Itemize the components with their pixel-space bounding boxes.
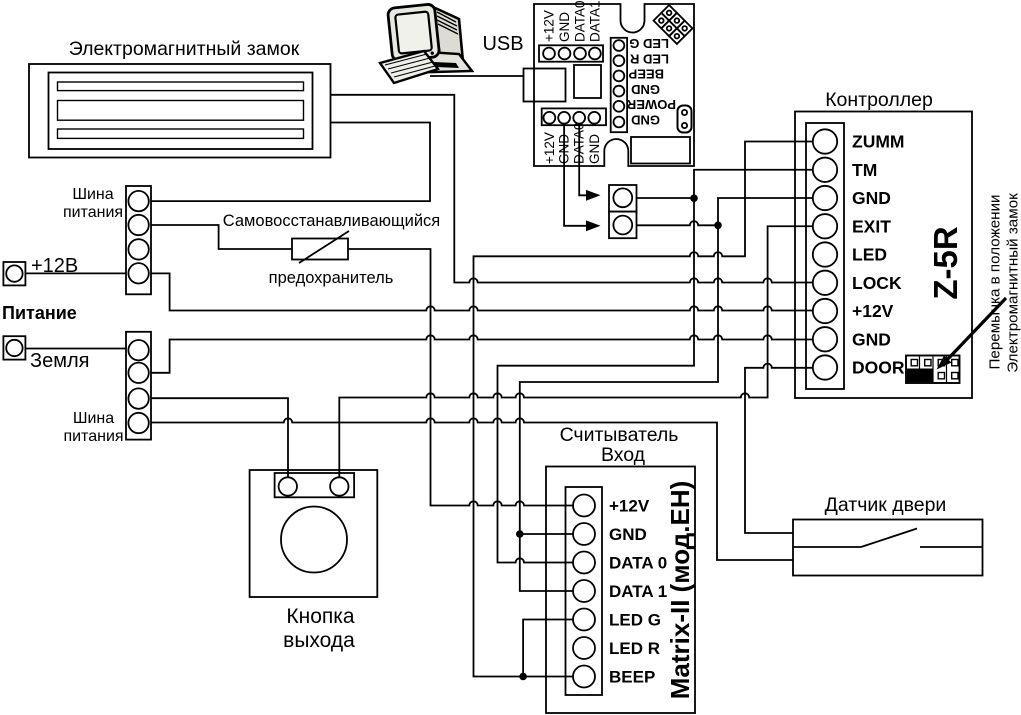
converter USB socket	[524, 69, 566, 102]
svg-text:LOCK: LOCK	[852, 273, 902, 293]
wire converter GND to TM connector (arrow)	[564, 124, 600, 232]
wire controller GND chain to reader DATA 1	[520, 198, 813, 591]
svg-text:GND: GND	[852, 329, 891, 349]
exit button	[250, 470, 378, 597]
controller Z-5R box	[795, 112, 972, 399]
converter chip	[574, 65, 601, 98]
label Кнопка выхода	[283, 605, 355, 652]
J3 pin LED G	[614, 40, 625, 51]
wire DOOR to door sensor	[745, 364, 813, 533]
svg-text:GND: GND	[557, 12, 572, 42]
pin DATA0 top	[574, 48, 586, 60]
svg-text:Вход: Вход	[601, 444, 646, 466]
pin +12V top	[543, 48, 555, 60]
controller terminal strip	[806, 123, 844, 389]
svg-text:Датчик двери: Датчик двери	[825, 494, 947, 516]
label Шина питания (top)	[63, 186, 123, 221]
labels J2 +12V GND DATA0 GND	[542, 122, 602, 164]
svg-text:BEEP: BEEP	[609, 668, 655, 687]
reader pin +12V	[573, 495, 595, 517]
converter board outline	[534, 4, 694, 166]
svg-text:Matrix-II (мод.EH): Matrix-II (мод.EH)	[665, 481, 695, 700]
converter top connector J1	[539, 45, 603, 61]
svg-text:+12V: +12V	[542, 10, 557, 42]
svg-text:TM: TM	[852, 160, 877, 180]
svg-text:Питание: Питание	[2, 303, 77, 323]
controller pin EXIT	[813, 214, 837, 238]
svg-text:LED G: LED G	[629, 36, 669, 51]
svg-text:предохранитель: предохранитель	[269, 269, 394, 287]
junction dot TM net	[690, 194, 698, 202]
labels J1 +12V GND DATA0 DATA1	[542, 0, 603, 42]
svg-text:DATA 0: DATA 0	[609, 554, 667, 573]
controller pin TM	[813, 158, 837, 182]
+12V power terminal	[3, 262, 25, 285]
controller pin +12V	[813, 299, 837, 323]
wire fuse to reader +12V	[348, 249, 574, 506]
converter jumper header 2x3	[654, 5, 693, 44]
svg-text:Считыватель: Считыватель	[560, 424, 679, 446]
svg-text:ZUMM: ZUMM	[852, 132, 904, 152]
J3 pin GND2	[614, 117, 625, 128]
jumper pointer arrow	[937, 298, 1007, 370]
controller pin GND	[813, 186, 837, 210]
reader pin DATA 1	[573, 580, 595, 602]
ground terminal Земля	[3, 336, 25, 359]
svg-text:GND: GND	[587, 134, 602, 164]
wire +12V bus to controller +12V	[151, 273, 813, 310]
labels J3 LED G LED R BEEP GND POWER GND (upside down)	[626, 36, 676, 128]
reader pin DATA 0	[573, 552, 595, 574]
controller pin DOOR	[813, 355, 837, 379]
svg-text:Электромагнитный замок: Электромагнитный замок	[69, 38, 300, 60]
wire lock minus to power strip pin1	[151, 123, 430, 202]
svg-text:GND: GND	[852, 188, 891, 208]
pin +12V bottom	[544, 112, 556, 124]
svg-text:питания: питания	[63, 428, 123, 445]
reader Matrix-II box	[546, 467, 695, 714]
svg-text:LED G: LED G	[609, 611, 661, 630]
power bus strip top	[126, 186, 151, 294]
wire ZUMM to reader BEEP	[474, 142, 813, 677]
pin GND bottom	[558, 112, 570, 124]
svg-text:GND: GND	[631, 113, 660, 128]
wire GND bus to controller GND	[151, 335, 813, 373]
reader pin labels	[609, 497, 667, 687]
svg-text:POWER: POWER	[626, 97, 676, 112]
J3 pin POWER	[614, 101, 625, 112]
svg-text:Самовосстанавливающийся: Самовосстанавливающийся	[223, 212, 440, 230]
wire strip pin3 to exit button	[151, 398, 288, 477]
svg-text:GND: GND	[609, 525, 647, 544]
computer PC icon	[380, 4, 472, 83]
svg-text:LED R: LED R	[609, 639, 660, 658]
pin GND2 bottom	[588, 112, 600, 124]
svg-text:USB: USB	[482, 33, 523, 55]
wire lock plus to LOCK pin	[330, 95, 813, 283]
svg-text:LED: LED	[852, 245, 887, 265]
controller pin labels	[852, 132, 905, 378]
controller DOOR jumper block	[906, 356, 960, 384]
pin DATA1 top	[589, 48, 601, 60]
wire TM connector top to TM net	[637, 197, 695, 199]
bottom strip pin 4	[128, 413, 148, 433]
svg-text:GND: GND	[631, 82, 660, 97]
converter bottom connector J2	[542, 108, 606, 125]
wire reader LED G drop	[523, 620, 573, 677]
J3 pin LED R	[614, 55, 625, 66]
pin GND top	[559, 48, 571, 60]
svg-text:DATA1: DATA1	[588, 0, 603, 42]
reader pin LED R	[573, 637, 595, 659]
reader terminal strip	[566, 487, 603, 695]
svg-text:+12V: +12V	[542, 132, 557, 164]
J3 pin GND	[614, 86, 625, 97]
junction dot reader BEEP	[519, 673, 527, 681]
reader pin GND	[573, 523, 595, 545]
svg-text:питания: питания	[63, 204, 123, 221]
svg-text:Шина: Шина	[73, 410, 114, 427]
fuse self-resetting	[292, 231, 349, 263]
controller pin GND	[813, 327, 837, 351]
wire TM to reader DATA 0	[498, 170, 813, 563]
top strip pin 1	[128, 191, 148, 211]
top strip pin 2	[128, 215, 148, 235]
svg-text:LED R: LED R	[629, 51, 669, 66]
label Перемычка в положении Электромагнитный замок	[987, 193, 1021, 373]
svg-text:DATA0: DATA0	[573, 0, 588, 42]
svg-text:Электромагнитный замок: Электромагнитный замок	[1005, 193, 1021, 373]
top strip pin 3	[128, 239, 148, 259]
wire computer USB cable	[430, 75, 524, 77]
controller pin ZUMM	[813, 129, 837, 153]
converter reader connector J3	[611, 38, 627, 132]
svg-text:DOOR: DOOR	[852, 358, 905, 378]
TM connector block	[609, 185, 637, 238]
door sensor	[793, 520, 983, 576]
top strip pin 4	[128, 263, 148, 283]
bottom strip pin 3	[128, 388, 148, 408]
svg-text:Контроллер: Контроллер	[825, 89, 933, 111]
label Шина питания (bottom)	[63, 410, 123, 445]
wire reader GND stub	[520, 533, 573, 535]
wire power strip pin2 to fuse	[151, 225, 292, 249]
bottom strip pin 2	[128, 363, 148, 383]
svg-text:Кнопка: Кнопка	[286, 605, 355, 628]
bottom strip pin 1	[128, 340, 148, 360]
reader pin LED G	[573, 609, 595, 631]
svg-text:+12V: +12V	[852, 301, 894, 321]
svg-text:DATA 1: DATA 1	[609, 582, 667, 601]
J3 pin BEEP	[614, 71, 625, 82]
svg-text:выхода: выхода	[283, 629, 355, 652]
wire converter DATA0 to TM connector (arrow)	[579, 124, 600, 201]
svg-text:Шина: Шина	[72, 186, 113, 203]
svg-text:Земля: Земля	[30, 350, 89, 372]
pin DATA0 bottom	[573, 112, 585, 124]
svg-text:BEEP: BEEP	[628, 67, 664, 82]
converter bottom-right block	[631, 137, 690, 164]
reader pin BEEP	[573, 666, 595, 688]
controller pin LOCK	[813, 271, 837, 295]
svg-text:Перемычка в положении: Перемычка в положении	[987, 194, 1004, 369]
wire TM connector bottom to GND net	[637, 221, 719, 225]
svg-text:Z-5R: Z-5R	[927, 226, 964, 300]
junction dot reader GND	[516, 530, 524, 538]
svg-text:+12V: +12V	[609, 497, 650, 516]
power bus strip bottom	[126, 332, 151, 440]
wire +12V source to strip pin4	[25, 272, 126, 274]
controller pin LED	[813, 242, 837, 266]
wire strip pin4 to door sensor	[151, 418, 793, 560]
svg-text:EXIT: EXIT	[852, 216, 891, 236]
wire ground Земля to strip pin1	[25, 348, 126, 350]
electromagnetic lock EM-lock body	[29, 64, 331, 158]
junction dot GND net	[714, 222, 722, 230]
wire exit button to EXIT pin	[339, 226, 813, 477]
converter 2-pin connector	[678, 106, 692, 133]
